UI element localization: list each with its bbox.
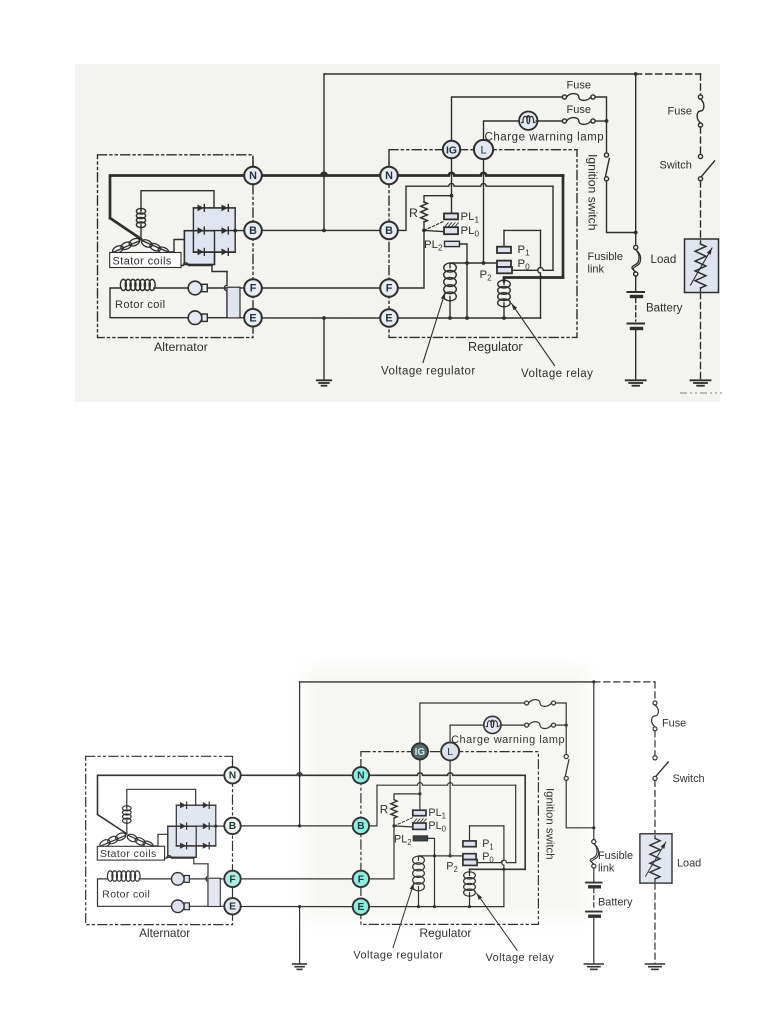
brush holder bar [208, 878, 220, 906]
wire fusible link to battery [593, 868, 595, 882]
stator left phase stub [113, 252, 115, 257]
svg-text:E: E [357, 902, 364, 913]
svg-text:Regulator: Regulator [419, 926, 471, 940]
wire bar to F terminal [220, 878, 224, 880]
diode D5 [180, 843, 186, 849]
contact gap hatch PL1/PL0 [414, 819, 417, 822]
slip ring brush 1 [172, 873, 185, 886]
svg-text:B: B [229, 821, 236, 832]
diode D3 [198, 227, 204, 234]
load variable resistor [654, 836, 656, 839]
stub alternator N to border [252, 158, 254, 167]
svg-text:Regulator: Regulator [468, 340, 523, 354]
wire fuse1 to ignition switch [556, 703, 567, 725]
wire battery vertical upper [635, 74, 637, 245]
ignition switch contact bottom [564, 776, 568, 780]
battery cell 2 [586, 911, 602, 913]
fusible link symbol [592, 840, 596, 844]
ignition switch contact top [564, 754, 568, 758]
voltage relay callout arrow [512, 304, 555, 366]
wire battery to ground [593, 918, 595, 964]
dashed armature link [424, 222, 444, 231]
diode D6 [203, 843, 209, 849]
diode row 1 wire [193, 207, 235, 209]
rotor coil left loop wire [110, 288, 188, 318]
svg-text:Battery: Battery [598, 896, 633, 908]
diode row 1 wire [176, 804, 215, 806]
ignition switch blade [565, 760, 569, 776]
battery cell 1 [628, 291, 645, 293]
wire contacts feed right vertical [552, 186, 554, 270]
junction armature pivot [422, 229, 426, 233]
junction VR coil at E row [417, 905, 420, 908]
terminal B (regulator, top) [380, 222, 398, 240]
diode row 3 wire [193, 251, 235, 253]
contact PL0 box [413, 823, 426, 829]
diode row 3 wire [176, 845, 215, 847]
terminal E (regulator, bottom) [353, 898, 369, 914]
junction PL2 at E row [465, 316, 469, 320]
diode row 2 wire [168, 825, 224, 827]
svg-text:Fuse: Fuse [567, 104, 591, 116]
wire contacts feed right vertical [515, 785, 517, 862]
wire fuse2 to ignition switch node [595, 120, 606, 122]
dashed wire switch to load [654, 780, 656, 833]
junction L vertical at coil node [482, 261, 486, 265]
junction VR coil at E row [448, 316, 452, 320]
junction bridge output to B row [233, 229, 237, 233]
diode D4 [222, 227, 228, 234]
stator coil left winding [101, 836, 125, 846]
wire PL2 to junction [428, 838, 435, 856]
svg-text:N: N [229, 771, 236, 782]
voltage relay coil [498, 280, 511, 288]
slip ring brush 1 [188, 281, 202, 295]
junction B row feed [298, 824, 301, 827]
svg-text:B: B [385, 225, 393, 237]
diode D5 [198, 249, 204, 256]
wire N row alternator-regulator (bold) [262, 173, 380, 176]
svg-text:F: F [386, 283, 393, 295]
wire R top branch [424, 196, 452, 202]
dashed armature link [394, 818, 412, 826]
junction ignition line / battery line [634, 231, 638, 235]
junction PL2 at E row [433, 905, 436, 908]
fuse 1 (ignition circuit) [562, 95, 566, 99]
wire top feed horizontal [300, 681, 594, 683]
contact PL0 box [444, 227, 458, 234]
load arrow [646, 842, 666, 876]
wire ignition switch to battery feed [607, 181, 636, 233]
stator top phase lead wire [141, 191, 214, 210]
voltage regulator callout arrow [393, 883, 414, 948]
diode D1 [180, 802, 186, 808]
fuse 3 (load branch) [698, 95, 702, 99]
wire battery feed vertical [299, 682, 301, 826]
stub alternator N to border [232, 759, 234, 767]
stator left phase stub [100, 846, 102, 851]
diode D2 [203, 802, 209, 808]
switch contact bottom [698, 177, 702, 181]
svg-text:N: N [357, 771, 364, 782]
battery middle dashed [635, 299, 637, 322]
wire P1 branch vertical [502, 826, 504, 907]
svg-text:F: F [229, 874, 235, 885]
load box [640, 834, 672, 883]
ground symbol (main) [293, 963, 307, 965]
diode row 2 wire [184, 230, 243, 232]
terminal F (regulator, top) [380, 279, 398, 297]
wire to P0-P2 contacts [477, 860, 516, 863]
regulator dash-dot boundary box (top) [389, 150, 577, 338]
wire contacts feed horizontal [377, 783, 516, 786]
rectifier bridge box 2 (lower-left) [168, 826, 196, 857]
wire PL2 junction down to E [466, 263, 468, 318]
svg-text:Fuse: Fuse [567, 80, 591, 92]
contact P1 box [497, 247, 511, 253]
rectifier bridge box 2 (lower-left) [184, 231, 214, 265]
stator coils label box [97, 846, 164, 860]
wire P1 branch horizontal [504, 229, 541, 231]
wire VR coil bottom to E [449, 300, 451, 318]
wire lamp to fuse 2 [500, 724, 525, 726]
wire B row alternator-regulator [241, 825, 352, 827]
contact P1 box [463, 841, 476, 847]
junction bold wire / P1 vertical [502, 868, 505, 871]
wire F row alternator-regulator [262, 287, 380, 289]
svg-text:Rotor coil: Rotor coil [102, 889, 150, 900]
rectifier bridge box 1 (main) [176, 805, 216, 846]
armature arm to PL0 [394, 826, 413, 827]
stator coil left winding [114, 241, 139, 252]
wire IG feed up and right [420, 703, 525, 745]
junction feed crosses N row [322, 174, 326, 178]
battery cell 1 [586, 882, 602, 884]
wire P1 branch horizontal [470, 825, 504, 827]
terminal L (bottom) [441, 742, 459, 760]
dashed wire top feed to load branch [636, 73, 701, 75]
voltage relay callout arrow [477, 893, 517, 950]
junction armature pivot [392, 824, 395, 827]
wire N row bold inside regulator [369, 773, 525, 776]
rotor coil winding [120, 279, 126, 290]
svg-text:link: link [598, 862, 615, 874]
stator coils label box [110, 253, 181, 268]
ignition switch blade [606, 159, 610, 177]
svg-text:Fuse: Fuse [668, 105, 692, 117]
svg-text:Voltage regulator: Voltage regulator [381, 365, 476, 377]
junction R branch / IG vertical [418, 792, 421, 795]
wire coil node horizontal [450, 262, 497, 264]
switch contact top [653, 756, 657, 760]
wire N bold path inside alternator [98, 775, 225, 814]
contact PL1 box [444, 213, 458, 219]
wire L vertical into regulator [449, 761, 451, 856]
junction top feed / battery vertical [592, 680, 595, 683]
svg-text:B: B [357, 821, 364, 832]
rotor coil left loop wire [98, 879, 172, 906]
stator coil top winding [136, 208, 145, 214]
contact P2 box [463, 860, 477, 866]
battery cell 2 [628, 323, 645, 325]
switch blade [702, 161, 715, 177]
rotor coil winding [107, 871, 113, 881]
slip ring brush 2 [172, 900, 185, 913]
svg-text:Fusible: Fusible [598, 850, 633, 862]
svg-text:Rotor coil: Rotor coil [115, 299, 165, 311]
wire fuse1 to ignition switch [595, 97, 606, 121]
battery middle dashed [593, 889, 595, 910]
svg-text:IG: IG [415, 747, 426, 758]
rectifier bridge box 2 border (overlap) [184, 231, 214, 265]
svg-text:Battery: Battery [646, 303, 683, 315]
terminal L (top) [474, 140, 493, 159]
terminal F (alternator, top) [244, 279, 262, 297]
wire slip ring 2 to brush bar [189, 905, 208, 907]
terminal E (alternator, top) [244, 309, 262, 327]
wire IG vertical into regulator [419, 759, 421, 810]
regulator dash-dot boundary box (bottom) [361, 752, 539, 925]
wire fusible link to battery [635, 276, 637, 291]
wire ignition switch to battery feed [566, 780, 594, 827]
terminal N (alternator, top) [244, 167, 262, 185]
junction ignition line / battery line [592, 826, 595, 829]
resistor R [421, 202, 428, 222]
dashed load branch upper [654, 682, 656, 701]
diode D6 [222, 249, 228, 256]
junction relay coil at E row [468, 905, 471, 908]
contact P2 box [497, 267, 512, 273]
junction top feed / battery vertical [634, 72, 638, 76]
svg-text:Switch: Switch [660, 160, 692, 172]
wire bar to F terminal [240, 287, 244, 289]
svg-text:Load: Load [651, 253, 677, 266]
terminal N (regulator, bottom) [353, 767, 369, 783]
rectifier bridge box 2 border (overlap) [168, 826, 196, 857]
wire to P0-P2 contacts [512, 268, 553, 271]
dashed wire switch to load [700, 181, 702, 239]
dashed wire fuse3 to switch [700, 127, 702, 154]
dashed wire fuse3 to switch [654, 731, 656, 756]
wire N row alternator-regulator (bold) [241, 773, 352, 776]
terminal N (regulator, top) [380, 167, 398, 185]
contact PL2 box [413, 836, 427, 841]
faint dash-dot page edge fragment bottom-right of top diagram [680, 392, 722, 394]
wire down to ignition switch [606, 121, 608, 153]
wire rotor to slip ring 1 [154, 287, 188, 289]
junction E row ground tap [298, 905, 301, 908]
contact P0 box [463, 854, 476, 860]
voltage regulator coil [444, 263, 457, 272]
wire P1 branch vertical [538, 230, 541, 318]
fuse 2 (lamp circuit) [525, 723, 529, 727]
terminal E (regulator, top) [380, 309, 398, 327]
svg-text:Stator coils: Stator coils [100, 849, 157, 860]
junction PL2/coil node [465, 261, 469, 265]
terminal B (alternator, top) [244, 222, 262, 240]
wire PL2 junction down to E [434, 856, 436, 907]
svg-text:R: R [380, 804, 388, 817]
wire relay coil bottom to E [503, 306, 505, 318]
stub regulator N to border [360, 761, 362, 768]
svg-text:Ignition switch: Ignition switch [544, 788, 556, 860]
junction E row ground tap [322, 316, 326, 320]
svg-text:Charge warning lamp: Charge warning lamp [485, 131, 605, 143]
junction bold wire / P1 vertical [539, 276, 543, 280]
wire E row to ground [323, 318, 325, 380]
svg-text:B: B [249, 225, 257, 237]
wire armature pivot [423, 222, 425, 230]
wire PL2 to junction [460, 244, 468, 263]
wire rotor to slip ring 1 [139, 878, 171, 880]
wire top feed horizontal [324, 73, 636, 75]
voltage regulator callout arrow [423, 293, 445, 363]
junction PL2/coil node [433, 854, 436, 857]
wire E row alternator-regulator [262, 317, 380, 319]
load arrow [691, 248, 713, 285]
diode D4 [203, 823, 209, 829]
wire N bold to voltage relay coil [504, 278, 563, 282]
wire rectifier case to E row [165, 856, 194, 859]
ignition switch contact bottom [604, 177, 608, 181]
slip ring brush 2 [188, 311, 202, 325]
stator coil right winding [129, 836, 153, 846]
ignition switch contact top [604, 153, 608, 157]
wire N bold path inside alternator [110, 176, 244, 219]
charge warning lamp [484, 716, 501, 733]
wire F row alternator-regulator [241, 878, 352, 880]
wire N row bold inside regulator [398, 173, 563, 176]
wire B to contacts riser [398, 186, 406, 230]
fusible link symbol [634, 245, 638, 249]
terminal IG (top) [443, 141, 460, 158]
svg-text:E: E [249, 312, 256, 324]
contact PL1 box [413, 810, 426, 816]
svg-text:Voltage relay: Voltage relay [521, 368, 593, 380]
diode D3 [180, 823, 186, 829]
wire B row alternator-regulator [262, 229, 380, 231]
svg-text:Ignition switch: Ignition switch [586, 154, 600, 231]
wire N bold to voltage relay coil [470, 869, 526, 872]
switch contact bottom [653, 776, 657, 780]
ground symbol (battery) [584, 963, 603, 965]
fuse 1 (ignition circuit) [525, 701, 529, 705]
switch blade [656, 762, 668, 776]
svg-text:Voltage relay: Voltage relay [486, 952, 555, 964]
wire L vertical into regulator [483, 160, 485, 264]
dashed wire load to ground [700, 293, 702, 380]
fuse 3 (load branch) [653, 701, 657, 705]
wire fuse2 to ignition switch node [556, 724, 567, 726]
junction L vertical at coil node [449, 854, 452, 857]
wire armature pivot [393, 818, 395, 826]
svg-text:Fuse: Fuse [662, 718, 686, 730]
svg-text:Fusible: Fusible [588, 251, 623, 263]
wire relay coil bottom to E [469, 896, 471, 907]
junction relay coil at E row [502, 316, 506, 320]
contact gap hatch PL1/PL0 [445, 223, 448, 226]
wire slip ring 1 to brush bar [207, 287, 227, 289]
terminal B (regulator, bottom) [353, 818, 369, 834]
dashed wire load to ground [654, 883, 656, 963]
wire IG feed up and right [452, 97, 563, 142]
wire VR coil bottom to E [418, 890, 420, 907]
svg-text:E: E [229, 902, 236, 913]
svg-text:L: L [480, 145, 486, 157]
wire B to contacts riser [369, 785, 377, 826]
wire bar to E terminal [220, 905, 224, 907]
junction fuse rows [605, 119, 609, 123]
ground symbol (main) [317, 379, 331, 381]
voltage regulator coil [413, 856, 425, 864]
wire F to voltage regulator armature [369, 826, 394, 879]
wire R top branch [394, 794, 420, 800]
junction fuse rows [565, 724, 568, 727]
wire slip ring 1 to brush bar [189, 878, 208, 880]
switch contact top [698, 154, 702, 158]
junction R branch / IG vertical [450, 194, 454, 198]
terminal F (alternator, bottom) [224, 871, 240, 887]
svg-text:Load: Load [677, 857, 701, 869]
svg-text:Charge warning lamp: Charge warning lamp [451, 734, 565, 746]
svg-text:R: R [409, 206, 418, 220]
wire slip ring 2 to brush bar [207, 317, 227, 319]
dashed wire top feed to load branch [594, 681, 655, 683]
stator right phase lead to rectifier [152, 834, 176, 846]
svg-text:F: F [358, 874, 364, 885]
stator right phase lead to rectifier [168, 240, 193, 253]
ground symbol (load) [646, 963, 665, 965]
alternator dash-dot boundary box (bottom) [86, 756, 233, 924]
svg-text:Switch: Switch [673, 773, 705, 785]
wire bar to E terminal [240, 317, 244, 319]
wire L feed up [484, 121, 520, 141]
wire battery to ground [635, 330, 637, 380]
wire L feed up [450, 725, 484, 743]
voltage relay coil [464, 872, 476, 879]
wire E row inside regulator [398, 317, 541, 319]
terminal F (regulator, bottom) [353, 871, 369, 887]
diode D2 [222, 205, 228, 212]
junction bridge output to B row [214, 825, 217, 828]
brush holder bar [227, 287, 240, 318]
svg-text:N: N [249, 170, 257, 182]
wire F to voltage regulator armature [398, 230, 424, 288]
wire lamp to fuse 2 [536, 120, 562, 122]
stator top phase lead wire [127, 789, 196, 807]
wire P1 top lead [469, 826, 471, 841]
wire coil node horizontal [419, 855, 463, 857]
armature arm to PL0 [424, 230, 444, 231]
wire N bold right vertical [524, 775, 526, 869]
contact P0 box [497, 261, 511, 267]
wire down to ignition switch [565, 725, 567, 754]
wire IG vertical into regulator [451, 158, 453, 213]
wire battery vertical upper [593, 682, 595, 840]
svg-text:IG: IG [446, 145, 457, 156]
svg-text:Alternator: Alternator [139, 926, 190, 940]
wire battery feed vertical [323, 74, 325, 230]
terminal E (alternator, bottom) [224, 898, 240, 914]
terminal B (alternator, bottom) [224, 818, 240, 834]
junction feed crosses N row [298, 774, 301, 777]
svg-text:E: E [385, 313, 392, 325]
wire N bold right vertical [562, 176, 565, 278]
svg-text:Alternator: Alternator [154, 340, 208, 354]
wire E row inside regulator [369, 906, 504, 908]
svg-text:Voltage regulator: Voltage regulator [353, 949, 443, 961]
wire P1 top lead [503, 230, 505, 246]
